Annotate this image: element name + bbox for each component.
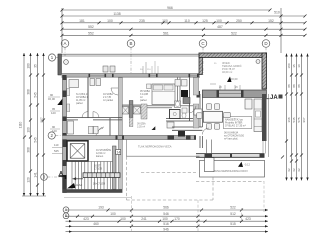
left dimension ticks bbox=[23, 74, 45, 187]
svg-text:522: 522 bbox=[231, 31, 237, 35]
svg-text:545: 545 bbox=[54, 149, 59, 153]
wc small bbox=[182, 108, 187, 113]
entrance arrow bottom bbox=[67, 183, 76, 189]
right dimension lines bbox=[287, 54, 308, 181]
svg-text:110: 110 bbox=[184, 19, 190, 23]
svg-text:parket: parket bbox=[140, 99, 147, 102]
svg-text:460: 460 bbox=[93, 222, 99, 226]
bottom-left annex bottom wall bbox=[63, 189, 123, 193]
svg-text:100: 100 bbox=[107, 19, 113, 23]
svg-text:3,35 m²: 3,35 m² bbox=[137, 125, 145, 128]
svg-text:35: 35 bbox=[34, 64, 38, 68]
bath right wall bbox=[189, 78, 191, 122]
B-grid wardrobe X boxes bbox=[122, 101, 147, 127]
texts stair bbox=[96, 149, 111, 158]
svg-text:967: 967 bbox=[40, 117, 44, 123]
entrance door mark left bbox=[57, 99, 62, 105]
svg-text:510: 510 bbox=[274, 11, 280, 15]
svg-text:RAVNA NEPROHODNA KROV: RAVNA NEPROHODNA KROV bbox=[212, 169, 248, 173]
svg-text:±0,00: ±0,00 bbox=[231, 77, 238, 81]
svg-text:88: 88 bbox=[297, 84, 301, 88]
dark fixture below bath bbox=[178, 131, 185, 137]
svg-text:100: 100 bbox=[110, 212, 116, 216]
svg-text:100: 100 bbox=[162, 19, 168, 23]
terrace room text block bbox=[222, 61, 242, 74]
top wall jamb marks bbox=[89, 74, 199, 78]
annex east wall band bbox=[119, 140, 123, 190]
grid dashed lines horizontal left bbox=[47, 58, 66, 178]
svg-text:120: 120 bbox=[51, 111, 56, 115]
terrace north arrow bbox=[227, 77, 238, 83]
svg-text:487: 487 bbox=[217, 25, 223, 29]
dining bottom wall (glazed) bbox=[196, 153, 265, 157]
terrace top wall bbox=[199, 53, 267, 58]
stairs dim strip bbox=[83, 173, 120, 178]
svg-text:180: 180 bbox=[287, 63, 291, 68]
lower terrace bbox=[200, 160, 265, 177]
svg-text:ULAZ: ULAZ bbox=[75, 183, 82, 187]
svg-text:100: 100 bbox=[162, 217, 168, 221]
blag label frame bbox=[223, 117, 252, 129]
svg-text:423: 423 bbox=[83, 217, 89, 221]
left wall solid segments bbox=[63, 75, 67, 193]
right dimension arrows bbox=[285, 54, 308, 181]
annex inner vertical line bbox=[127, 140, 200, 157]
svg-text:545: 545 bbox=[34, 137, 38, 143]
svg-text:141: 141 bbox=[34, 172, 38, 178]
svg-text:368: 368 bbox=[27, 147, 31, 153]
dining terrace jamb bbox=[206, 140, 211, 154]
svg-text:17,5/29: 17,5/29 bbox=[94, 168, 103, 171]
dining left wall bbox=[200, 94, 202, 148]
svg-text:210: 210 bbox=[147, 69, 151, 71]
svg-text:561: 561 bbox=[163, 31, 169, 35]
svg-text:120: 120 bbox=[52, 129, 57, 133]
svg-text:35: 35 bbox=[292, 64, 296, 68]
svg-text:180: 180 bbox=[27, 63, 31, 69]
svg-text:95: 95 bbox=[214, 63, 217, 65]
JA label bbox=[270, 95, 278, 101]
dims above terrace bottom wall bbox=[220, 85, 240, 90]
room 02 wardrobe bbox=[68, 121, 74, 134]
chair right of table bbox=[224, 112, 231, 117]
svg-text:1: 1 bbox=[51, 55, 54, 60]
small dim texts left of wall bbox=[48, 93, 59, 153]
svg-text:1110: 1110 bbox=[19, 121, 23, 128]
bedroom05 bottom wall bbox=[122, 106, 196, 108]
grid dashed lines vertical bbox=[65, 47, 266, 75]
svg-text:100: 100 bbox=[216, 19, 222, 23]
svg-text:110: 110 bbox=[54, 143, 59, 147]
svg-text:966: 966 bbox=[167, 6, 173, 10]
box 14 bbox=[116, 150, 121, 155]
svg-text:423: 423 bbox=[245, 217, 251, 221]
right outer wall lower bbox=[262, 94, 267, 141]
stair right wall bbox=[113, 146, 117, 189]
grid bubble 1 bbox=[41, 54, 56, 180]
svg-text:522: 522 bbox=[230, 206, 236, 210]
svg-text:368: 368 bbox=[287, 117, 291, 122]
svg-text:kamen: kamen bbox=[96, 155, 104, 158]
svg-text:546: 546 bbox=[163, 212, 169, 216]
texts room 05 bbox=[140, 90, 150, 102]
balcony column circle bbox=[64, 60, 69, 65]
laundry box bbox=[167, 122, 174, 128]
bath fixtures bbox=[175, 101, 181, 108]
dimension line top L1 bbox=[62, 8, 305, 53]
svg-text:193: 193 bbox=[98, 206, 104, 210]
bedroom05 right wall bbox=[178, 78, 181, 106]
dark door mark bbox=[152, 126, 156, 130]
right dimension ticks bbox=[281, 74, 303, 163]
svg-text:515: 515 bbox=[230, 222, 236, 226]
middle main wall band bbox=[63, 135, 197, 139]
bed bedroom 05 bbox=[147, 84, 176, 105]
svg-text:575: 575 bbox=[297, 117, 301, 122]
terrace bottom wall bbox=[202, 90, 266, 98]
bath bottom wall bbox=[166, 119, 196, 122]
dimension labels top bbox=[79, 6, 280, 35]
svg-text:241: 241 bbox=[141, 217, 147, 221]
svg-text:16×17,5/29: 16×17,5/29 bbox=[93, 183, 106, 186]
grid bubble D bbox=[262, 40, 270, 48]
svg-text:±0,00: ±0,00 bbox=[48, 97, 55, 101]
svg-text:516: 516 bbox=[163, 222, 169, 226]
svg-text:-0,12: -0,12 bbox=[244, 163, 250, 167]
top wall windows bbox=[90, 74, 197, 76]
grid bubble 3 bbox=[41, 174, 48, 181]
svg-text:30: 30 bbox=[297, 64, 301, 68]
stairs arrow bbox=[73, 178, 84, 180]
svg-text:20: 20 bbox=[219, 86, 222, 89]
kitchen counters bbox=[245, 99, 262, 132]
section marker A left bbox=[59, 171, 66, 179]
misc small dims inside top bbox=[143, 62, 216, 84]
toilet bbox=[182, 113, 186, 118]
left dimension lines bbox=[22, 53, 46, 196]
bottom small bubbles bbox=[63, 207, 69, 219]
stairwell east wall upper (hatched band) bbox=[119, 78, 123, 136]
svg-text:552: 552 bbox=[88, 31, 94, 35]
svg-text:62: 62 bbox=[297, 168, 301, 172]
extension line below annex bbox=[64, 196, 131, 198]
svg-text:545: 545 bbox=[34, 92, 38, 98]
svg-text:parket: parket bbox=[76, 102, 83, 105]
text 09 bbox=[137, 123, 146, 129]
bottom dimension ticks bbox=[76, 209, 243, 228]
svg-text:JA: JA bbox=[270, 95, 278, 101]
svg-text:2: 2 bbox=[50, 133, 53, 138]
svg-text:A: A bbox=[63, 41, 66, 46]
radiators on left wall bbox=[67, 89, 70, 96]
room 02 small desks bbox=[89, 126, 94, 134]
svg-text:235: 235 bbox=[139, 19, 145, 23]
stairs treads bbox=[72, 162, 113, 190]
balcony left wall bbox=[58, 54, 62, 75]
left rooms bottom wall bbox=[67, 118, 123, 120]
svg-text:D: D bbox=[264, 41, 268, 46]
elevator shaft bbox=[67, 141, 88, 161]
svg-text:46,00 m²: 46,00 m² bbox=[222, 70, 232, 74]
corridor door arcs bbox=[96, 127, 104, 136]
terrace room column circle bbox=[256, 60, 260, 64]
texts kitchen small bbox=[224, 131, 245, 140]
svg-text:62: 62 bbox=[287, 168, 291, 172]
grid bubble B bbox=[127, 40, 135, 48]
interior wall between room04 and entry bbox=[87, 78, 89, 118]
svg-text:m² kam.ploč.: m² kam.ploč. bbox=[224, 137, 239, 140]
svg-text:100: 100 bbox=[120, 217, 126, 221]
svg-text:552: 552 bbox=[88, 25, 94, 29]
wall below corridor right bbox=[172, 127, 202, 130]
svg-text:26: 26 bbox=[235, 86, 238, 89]
svg-text:C: C bbox=[201, 41, 205, 46]
svg-text:3: 3 bbox=[43, 175, 46, 180]
svg-text:368: 368 bbox=[27, 89, 31, 95]
left dimension arrows top bbox=[23, 53, 45, 196]
bottom dimension vertical extension dashed bbox=[132, 181, 265, 232]
svg-text:14: 14 bbox=[117, 151, 121, 155]
dimension tick marks top bbox=[61, 9, 307, 37]
svg-text:88: 88 bbox=[292, 84, 296, 88]
svg-text:90: 90 bbox=[140, 69, 143, 71]
door arcs interior bbox=[82, 88, 209, 135]
svg-text:88: 88 bbox=[287, 84, 291, 88]
left outer wall bbox=[63, 75, 67, 193]
svg-text:250: 250 bbox=[236, 19, 242, 23]
svg-text:512: 512 bbox=[230, 212, 236, 216]
bath fixtures top bbox=[175, 80, 181, 87]
svg-text:B: B bbox=[129, 41, 132, 46]
chairs bbox=[206, 104, 211, 110]
svg-text:170: 170 bbox=[174, 217, 180, 221]
grid bubble C bbox=[199, 40, 207, 48]
svg-text:152: 152 bbox=[268, 19, 274, 23]
left dimension labels (rotated) bbox=[19, 63, 45, 183]
room 04 basins bbox=[90, 79, 95, 86]
corner post left of dining bbox=[197, 91, 201, 98]
hallway gray strip bbox=[193, 78, 199, 96]
main top wall bbox=[62, 74, 201, 78]
bath shaft dark bbox=[181, 90, 188, 97]
right dimension labels (rotated) bbox=[287, 63, 306, 172]
balcony top strip bbox=[58, 54, 200, 75]
svg-text:125: 125 bbox=[202, 19, 208, 23]
grid bubble 2 bbox=[48, 132, 55, 139]
terrace left wall bbox=[199, 58, 202, 75]
texts room 03 bbox=[76, 93, 89, 105]
svg-text:566: 566 bbox=[163, 206, 169, 210]
dashed outline below bbox=[127, 157, 265, 201]
svg-text:07 BLAG 27,35 m²: 07 BLAG 27,35 m² bbox=[225, 125, 246, 128]
shower bbox=[170, 110, 181, 119]
lower terrace left column bbox=[205, 158, 215, 172]
svg-text:545: 545 bbox=[292, 117, 296, 122]
texts room 04 bbox=[103, 93, 113, 102]
bottom dimension labels bbox=[83, 206, 251, 232]
dining table bbox=[197, 104, 223, 129]
svg-text:181: 181 bbox=[79, 19, 85, 23]
sofa squares below terrace wall bbox=[204, 103, 206, 105]
terrace right wall bbox=[262, 53, 267, 89]
stairs labels bbox=[93, 165, 106, 186]
svg-text:m² parket: m² parket bbox=[103, 99, 113, 102]
svg-text:967: 967 bbox=[302, 117, 306, 122]
svg-text:1138: 1138 bbox=[113, 12, 120, 16]
svg-text:120: 120 bbox=[27, 177, 31, 183]
corridor wall piece bbox=[109, 118, 111, 136]
grid bubble A bbox=[61, 40, 270, 48]
bottom dimension lines bbox=[66, 210, 269, 232]
svg-text:TLAK NEPROHODNA VEĆA: TLAK NEPROHODNA VEĆA bbox=[138, 144, 172, 149]
svg-text:62: 62 bbox=[292, 168, 296, 172]
bottom dimension arrows bbox=[69, 209, 268, 233]
room 04 furniture: closet bbox=[69, 80, 79, 88]
balcony door marks bbox=[103, 61, 158, 74]
svg-text:946: 946 bbox=[163, 227, 169, 231]
svg-text:100: 100 bbox=[27, 127, 31, 133]
